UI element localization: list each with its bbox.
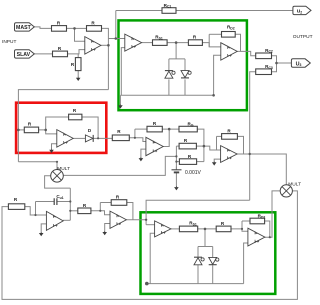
- wire U1 output: [101, 44, 109, 46]
- svg-text:MULT: MULT: [288, 182, 301, 188]
- input tag MAST: [15, 23, 35, 31]
- wire U2 output to RS1: [142, 42, 153, 44]
- resistor R (after red box): [112, 135, 129, 141]
- wire R to U10 inverting input: [231, 229, 248, 231]
- wire U6 feedback left: [216, 136, 218, 150]
- resistor R (red box input): [24, 127, 38, 133]
- wire U1 output down-left long run: [18, 90, 108, 162]
- resistor R (U8 feedback): [111, 200, 127, 206]
- wire U3 feedback left: [209, 33, 221, 35]
- wire bottom diode legs to rail: [197, 265, 199, 284]
- resistor R (bottom box middle): [216, 226, 231, 232]
- resistor RG: [179, 126, 197, 132]
- ground U8: [104, 231, 106, 232]
- wire RS1 to R (bottom box): [198, 228, 217, 230]
- wire U8 non-inverting to ground: [105, 224, 110, 231]
- wire battery minus to ground: [175, 173, 177, 186]
- wire lower R left stub: [176, 161, 179, 163]
- wire right diode top leg: [184, 59, 186, 70]
- wire R to U5 inverting input: [129, 138, 146, 142]
- wire R to op-amp U3 inverting input: [202, 43, 220, 47]
- wire rail to U3 non-inverting input: [214, 55, 221, 95]
- wire U4 feedback right down to diode output: [82, 117, 98, 138]
- wire U5 feedback right / RG node: [162, 128, 179, 130]
- op-amp U9 (bottom box input): [155, 221, 171, 237]
- wire Cu1 feedback left: [35, 202, 37, 216]
- green highlight box (top wave-shaper stage): [119, 20, 247, 110]
- wire U10 feedback right to output: [265, 221, 270, 237]
- wire right diode bottom leg: [184, 79, 186, 95]
- resistor R (divider lower): [179, 159, 196, 165]
- resistor R (vertical to ground): [75, 58, 81, 71]
- op-amp U7 (integrator): [46, 211, 63, 230]
- wire diode D output exits red box: [94, 137, 113, 139]
- multiplier MULT2: [280, 185, 292, 197]
- wire U8 feedback right to output: [127, 203, 133, 220]
- svg-text:OUTPUT: OUTPUT: [293, 34, 313, 40]
- wire U5 feedback left: [134, 129, 136, 138]
- wire node to U6 inverting input: [204, 146, 221, 150]
- resistor R (U6 feedback): [222, 134, 238, 140]
- wire U4 non-inverting to ground: [52, 144, 57, 149]
- wire left diode bottom leg: [168, 79, 170, 95]
- wire integrator node to R: [70, 210, 78, 212]
- input tag SLAV: [15, 50, 35, 58]
- op-amp U10 (bottom box output): [248, 228, 265, 246]
- output tag u2: [293, 6, 311, 14]
- wire top line left of RC1: [116, 10, 162, 12]
- wire U10 non-inverting to rail: [244, 243, 248, 284]
- wire bottom box input to U9: [146, 224, 155, 226]
- capacitor Cu1 (integrator feedback): [54, 198, 57, 205]
- wire op U8 output into bottom box: [126, 219, 146, 221]
- diode pair bottom box - right (cathode down): [209, 257, 217, 264]
- wire U5 non-inverting to ground: [141, 149, 146, 157]
- ground U5: [140, 157, 142, 158]
- resistor R (divider middle): [179, 143, 196, 149]
- op-amp U6: [221, 146, 238, 163]
- wire R to op-amp U1 inverting input: [67, 28, 85, 41]
- battery 0.001V: [175, 167, 177, 170]
- resistor R (top box middle): [188, 40, 202, 46]
- wire U5 output riser: [163, 129, 169, 146]
- wire RG right down to R row: [197, 129, 204, 162]
- wire node to U3 tag: [277, 62, 292, 64]
- wire lower R right stub: [197, 161, 204, 163]
- wire U3 output to RC2: [237, 51, 256, 55]
- wire left diode top leg: [168, 59, 170, 70]
- wire node to feedback R of U1: [75, 27, 87, 29]
- wire R to op-amp U1 non-inverting input: [67, 50, 85, 54]
- resistor RD2 (U10 feedback): [250, 218, 265, 224]
- wire middle R right stub: [196, 145, 204, 147]
- wire U1 output to op-amp U2 input: [108, 38, 124, 40]
- multiplier MULT1: [51, 170, 64, 183]
- wire vertical R to ground: [77, 71, 79, 77]
- diode pair top box - right (cathode down): [181, 71, 189, 78]
- ground below vertical R: [77, 77, 79, 78]
- wire Cu1 right plate to output node: [57, 201, 70, 203]
- resistor RC1 (top line): [162, 8, 176, 14]
- svg-text:0.001V: 0.001V: [185, 170, 202, 176]
- wire long return to bottom box input: [146, 200, 250, 224]
- resistor R (bottom-left loop): [8, 204, 24, 210]
- ground bottom box rail: [145, 282, 149, 286]
- wire bottom diode branch drop: [204, 229, 206, 247]
- resistor RC2: [256, 53, 272, 59]
- wire R to U8 inverting input: [91, 211, 110, 215]
- wire RC3 left to long vertical: [250, 72, 256, 201]
- wire feedback R right to output column: [101, 28, 109, 89]
- wire U4 output to diode D: [73, 137, 85, 139]
- wire middle R left stub: [176, 145, 179, 147]
- resistor R (U1 feedback): [87, 26, 102, 32]
- ground U6: [213, 161, 215, 162]
- resistor RD2 (U3 feedback): [222, 32, 236, 38]
- wire U6 feedback right to output: [237, 136, 243, 154]
- resistor R (integrator to U8): [78, 208, 91, 214]
- wire MULT1 output long run to battery node: [63, 156, 176, 175]
- wire SLAV tag to R: [34, 53, 52, 55]
- diode D (red box): [85, 135, 93, 142]
- wire U2 non-inverting input to bottom rail: [121, 48, 125, 96]
- op-amp U4 (red box): [57, 130, 73, 148]
- wire diode branch drop: [175, 43, 177, 59]
- wire RC2 to U3 output tag node: [272, 56, 277, 63]
- ground U7: [40, 232, 42, 233]
- wire down-run to MULT1 top: [18, 162, 57, 170]
- resistor R (MAST input): [52, 26, 67, 32]
- wire riser to top RC1 line: [115, 11, 117, 39]
- wire U9 output to RS1: [171, 228, 180, 230]
- op-amp U8: [110, 211, 126, 228]
- op-amp U5: [146, 137, 163, 155]
- wire battery node vertical: [175, 146, 177, 170]
- green highlight box (bottom wave-shaper stage): [141, 212, 276, 294]
- svg-text:MAST: MAST: [16, 25, 32, 31]
- resistor RS1 (bottom box): [179, 226, 197, 232]
- wire tap to vertical R: [77, 54, 79, 58]
- wire integrator output vertical: [69, 188, 71, 220]
- wire RS1 to R: [167, 42, 188, 44]
- svg-text:SLAV: SLAV: [17, 52, 31, 58]
- wire U4 feedback left: [46, 117, 69, 130]
- resistor RC3: [256, 69, 272, 75]
- wire MULT1 left to integrator output node: [45, 176, 71, 188]
- wire U7 non-inverting to ground: [41, 224, 46, 232]
- ground top box rail: [119, 104, 121, 105]
- op-amp U1: [85, 37, 101, 55]
- svg-text:INPUT: INPUT: [2, 39, 16, 45]
- wire diode branch split: [169, 58, 185, 60]
- wire U10 output to MULT2 left: [265, 191, 280, 237]
- resistor R (U4 feedback): [69, 114, 82, 120]
- wire U10 feedback left: [241, 221, 243, 231]
- wire MULT1 top input: [56, 162, 58, 170]
- wire top box bottom rail: [120, 94, 213, 96]
- op-amp U3 (top box output): [221, 43, 237, 60]
- ground battery: [175, 186, 177, 187]
- wire U6 non-inverting to ground: [214, 159, 220, 161]
- wire bottom diode split: [198, 246, 213, 248]
- wire bottom box rail: [147, 283, 244, 285]
- wire U6 output row to MULT2: [237, 154, 286, 185]
- red highlight box (precision rectifier stage): [16, 103, 106, 153]
- wire U9 non-inverting to rail: [150, 233, 154, 283]
- resistor R (SLAV input): [53, 51, 68, 57]
- op-amp U2 (top box input): [125, 34, 142, 51]
- diode pair bottom box - left (cathode up): [194, 256, 202, 258]
- wire MAST tag to R: [34, 27, 51, 29]
- wire top line RC1 to u2 tag: [176, 10, 293, 12]
- resistor R (U5 feedback): [147, 126, 162, 132]
- junction node dots: [73, 27, 76, 30]
- wire stub to rectifier input R: [18, 129, 24, 131]
- wire big loop: MULT2 right down around to bottom-left R: [2, 191, 297, 300]
- wire U8 feedback left: [99, 203, 101, 211]
- ground U4: [51, 149, 53, 150]
- wire node down to RC3: [272, 63, 277, 72]
- wire U3 feedback right to output: [235, 34, 240, 51]
- wire bottom-left R to integrator input: [25, 207, 47, 215]
- wire red box input R to U4 inverting input: [39, 130, 57, 134]
- diode pair top box - left (cathode up): [165, 70, 173, 72]
- output tag U3: [291, 59, 310, 67]
- resistor RS1 (top box): [153, 40, 168, 46]
- svg-text:MULT: MULT: [57, 166, 70, 172]
- wire rail to ground stub: [119, 95, 121, 104]
- wire U7 output: [63, 219, 70, 221]
